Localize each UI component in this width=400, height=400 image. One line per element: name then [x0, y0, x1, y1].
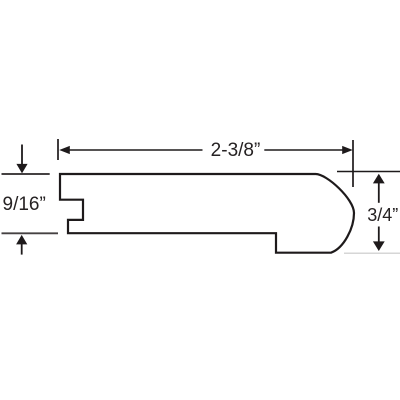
dimension 3/4: bottom extension line (light) [344, 252, 400, 254]
svg-text:9/16”: 9/16” [3, 194, 46, 215]
dimension 2-3/8: dimension line right segment [264, 149, 343, 151]
svg-text:2-3/8”: 2-3/8” [211, 140, 261, 161]
dimension 2-3/8: left extension tick [57, 139, 59, 160]
dimension 3/4: up arrowhead [373, 174, 385, 184]
dimension 3/4: down arrowhead [373, 241, 385, 251]
dimension 2-3/8: right extension tick [352, 140, 354, 187]
stair nose molding profile outline [60, 174, 354, 253]
dimension 2-3/8: left arrowhead [59, 146, 70, 154]
dimension 9/16: up arrowhead [16, 235, 27, 245]
svg-text:3/4”: 3/4” [367, 205, 398, 225]
dimension 3/4: up arrow stem [378, 183, 380, 203]
dimension 2-3/8: dimension line left segment [69, 149, 203, 151]
dimension 9/16: down arrowhead [16, 164, 27, 174]
dimension 2-3/8: right arrowhead [342, 146, 353, 154]
dimension 9/16: up arrow stem [21, 244, 23, 255]
dimension 9/16: top extension line [2, 173, 50, 175]
dimension 3/4: top extension line [337, 171, 400, 173]
dimension 9/16: down arrow stem [21, 145, 23, 166]
dimension 3/4: down arrow stem [378, 227, 380, 245]
dimension 9/16: bottom extension line [2, 232, 59, 234]
